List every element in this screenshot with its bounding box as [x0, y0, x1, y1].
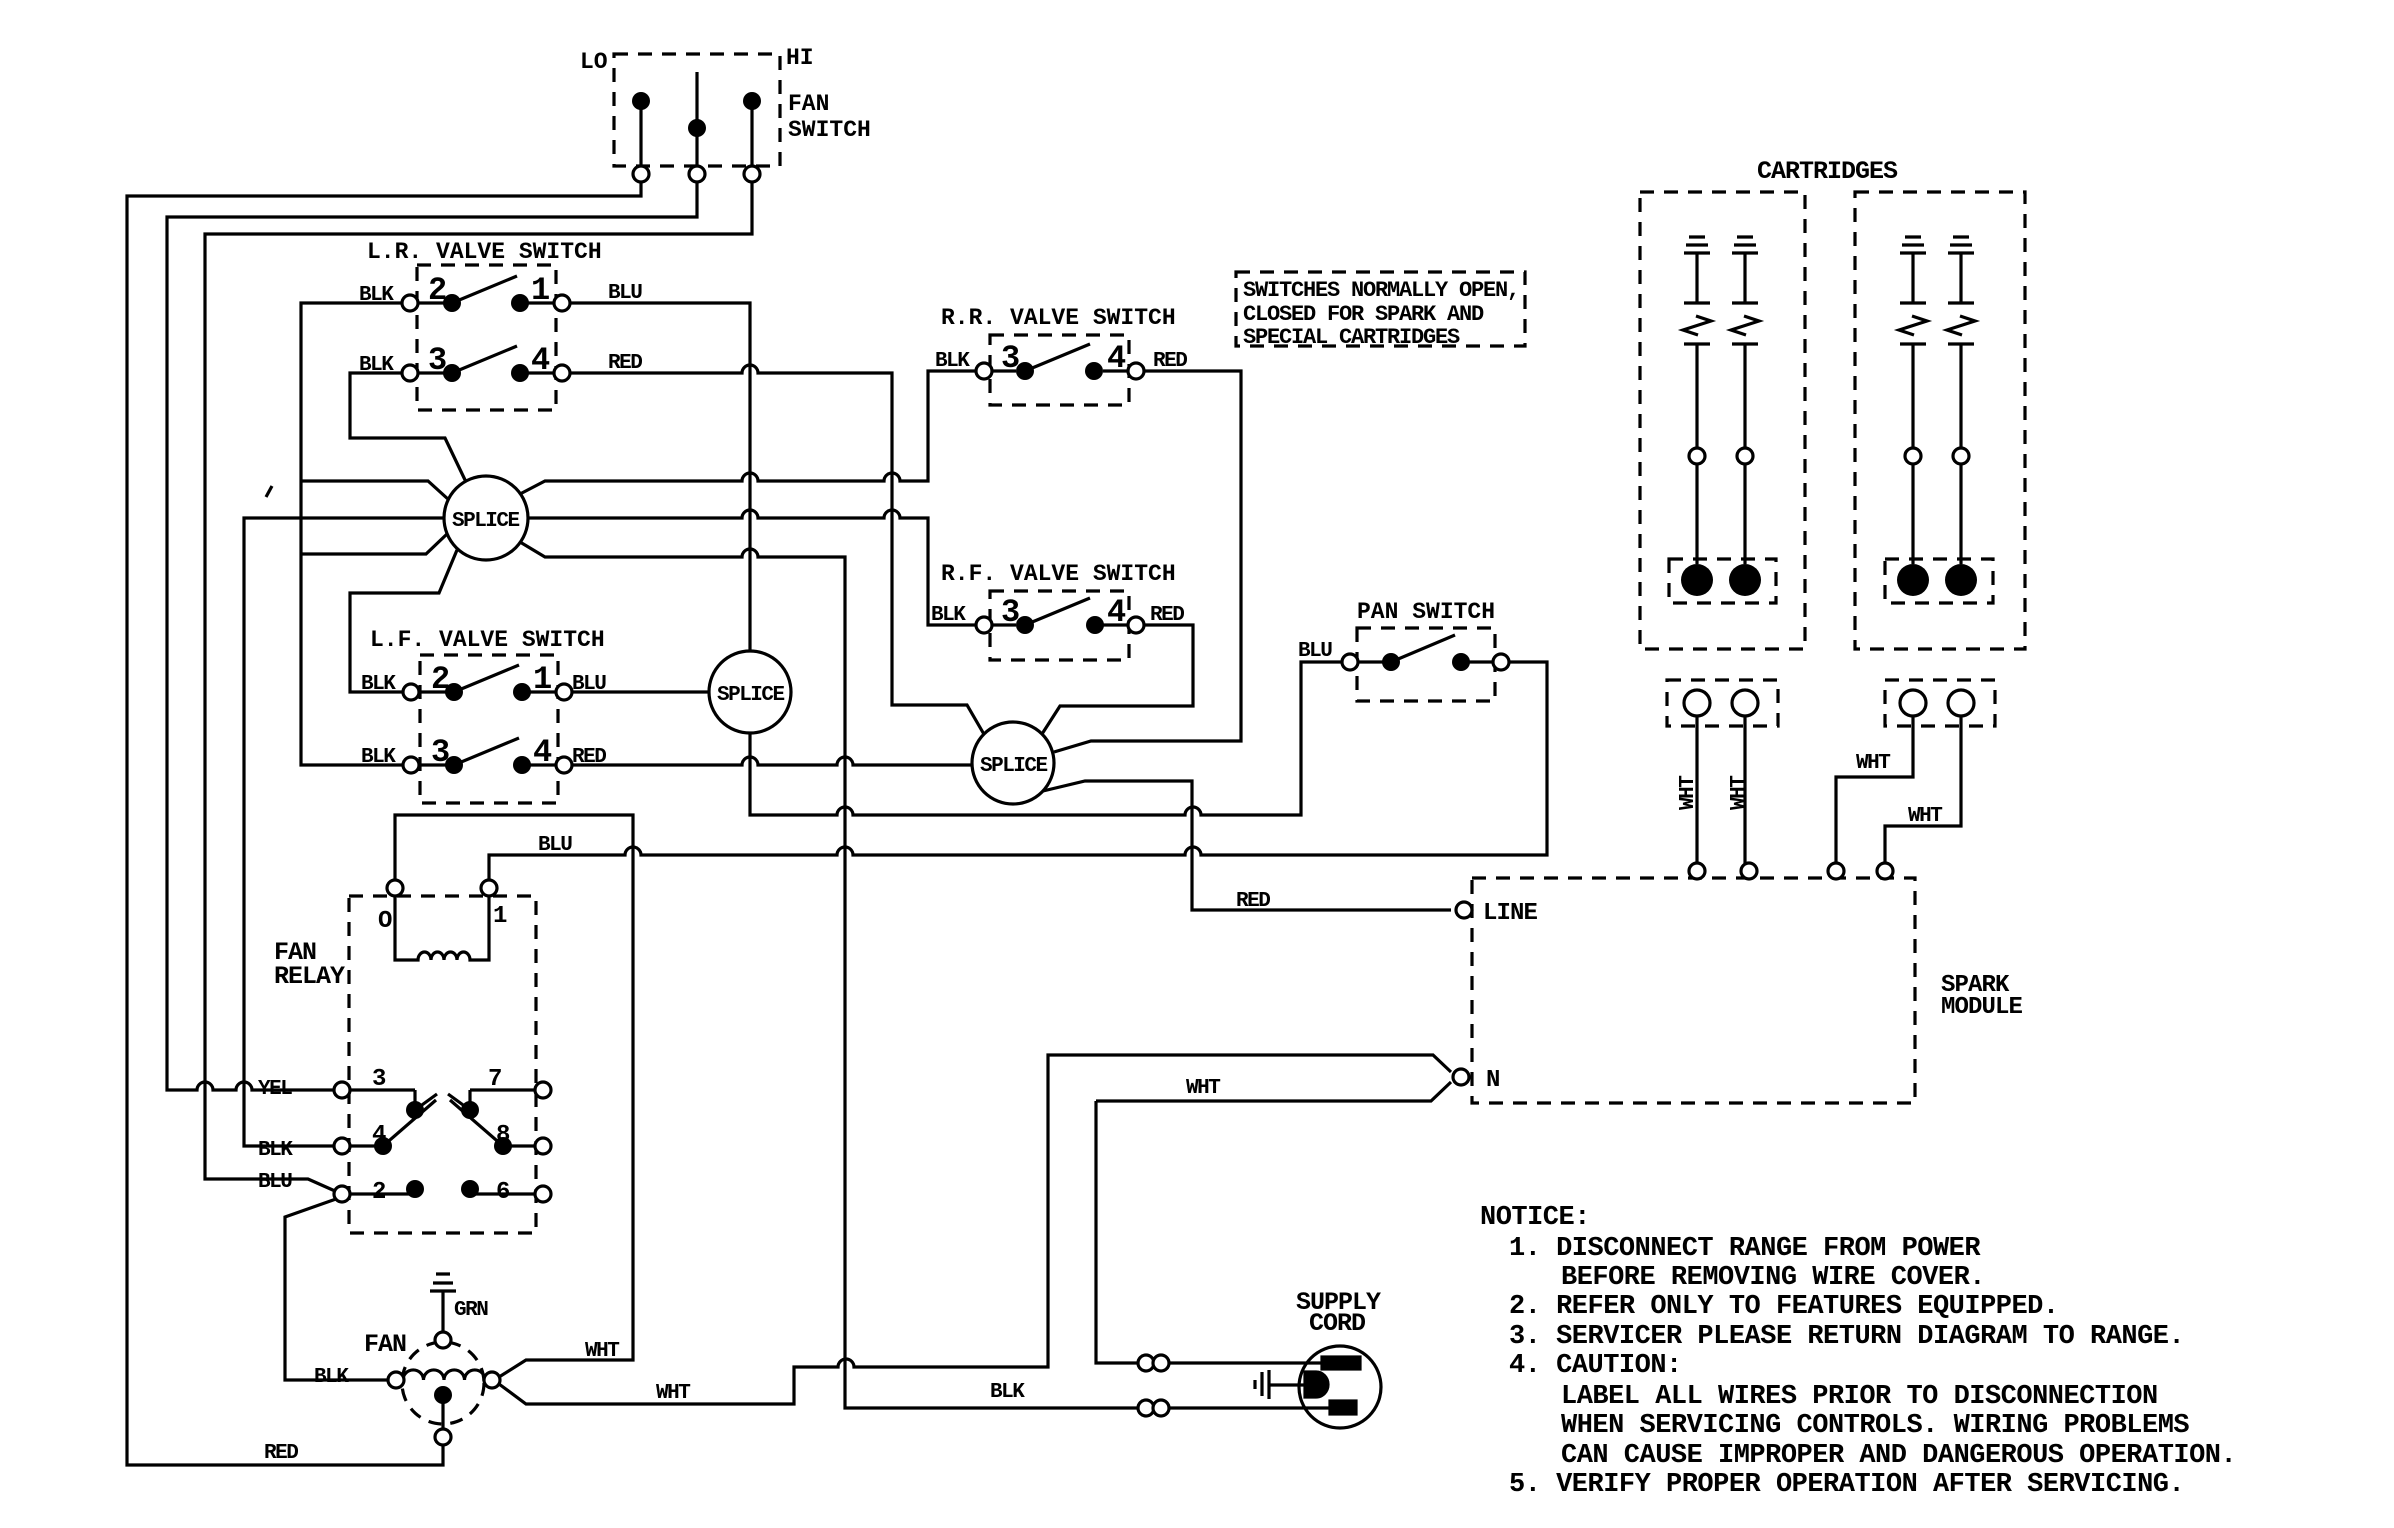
fan motor enclosure — [402, 1342, 484, 1424]
spark module enclosure — [1472, 878, 1915, 1103]
wire L.F. valve 4 RED to splice3 left — [571, 757, 973, 765]
label BLU (pan switch) — [1298, 640, 1332, 663]
svg-text:WHEN SERVICING CONTROLS. WIRIN: WHEN SERVICING CONTROLS. WIRING PROBLEMS — [1561, 1411, 2189, 1441]
L.R. pin 1 — [531, 272, 550, 309]
spark module terminal 2 — [1741, 863, 1757, 879]
svg-text:4: 4 — [531, 342, 550, 379]
svg-text:5. VERIFY PROPER OPERATION AFT: 5. VERIFY PROPER OPERATION AFTER SERVICI… — [1509, 1470, 2184, 1500]
L.F. valve switch contact 3-4 — [403, 738, 572, 774]
wire splice1 to R.R. valve 3 BLK (H1) — [520, 371, 977, 494]
svg-text:4: 4 — [1107, 340, 1126, 377]
svg-text:RED: RED — [264, 1442, 298, 1465]
fan relay contact 3 — [334, 1082, 437, 1119]
svg-text:3. SERVICER PLEASE RETURN DIAG: 3. SERVICER PLEASE RETURN DIAGRAM TO RAN… — [1509, 1322, 2184, 1352]
svg-text:CLOSED FOR SPARK AND: CLOSED FOR SPARK AND — [1243, 302, 1484, 327]
splice junction SPLICE1 — [444, 476, 528, 560]
label FAN SWITCH — [788, 91, 871, 143]
L.F. pin 1 — [533, 661, 552, 698]
wire right cartridge lead 2 to spark module — [1885, 716, 1961, 864]
svg-text:BLK: BLK — [361, 746, 396, 769]
fan GRN terminal — [435, 1332, 451, 1348]
wire right cartridge lead 1 to spark module — [1836, 716, 1913, 864]
svg-text:PAN SWITCH: PAN SWITCH — [1357, 599, 1495, 625]
svg-text:SWITCH: SWITCH — [788, 117, 871, 143]
wire splice1 to fan relay 4 (BLK) — [244, 518, 444, 1146]
fan relay coil terminal 1 — [481, 880, 497, 896]
label WHT (cart lead 3) — [1856, 752, 1890, 775]
fan relay contact 2 — [334, 1180, 424, 1202]
svg-text:GRN: GRN — [454, 1299, 488, 1322]
svg-text:MODULE: MODULE — [1941, 994, 2023, 1021]
label RED (L.F.4) — [572, 746, 606, 769]
svg-text:FAN: FAN — [364, 1330, 406, 1359]
svg-text:WHT: WHT — [1908, 805, 1942, 828]
label GRN — [454, 1299, 488, 1322]
fan label — [364, 1330, 406, 1359]
svg-text:BLK: BLK — [361, 673, 396, 696]
label HI — [786, 45, 814, 71]
wire L.R. valve 2 BLK / L.F. valve 3 BLK vertical — [301, 303, 404, 765]
svg-text:HI: HI — [786, 45, 814, 71]
cartridge enclosure right — [1855, 192, 2025, 649]
svg-text:CORD: CORD — [1309, 1309, 1366, 1338]
svg-text:CAN CAUSE IMPROPER AND DANGERO: CAN CAUSE IMPROPER AND DANGEROUS OPERATI… — [1561, 1441, 2236, 1471]
pan switch contact — [1342, 635, 1509, 671]
wire splice1 to supply cord BLK (H3) — [520, 542, 1139, 1408]
label BLU (relay 2) — [258, 1171, 292, 1194]
fan switch HI terminal — [743, 92, 761, 182]
spark module terminal 4 — [1877, 863, 1893, 879]
fan BLK terminal — [388, 1372, 404, 1388]
svg-text:BLU: BLU — [1298, 640, 1332, 663]
svg-text:WHT: WHT — [1856, 752, 1890, 775]
ground symbol (supply cord) — [1255, 1370, 1305, 1399]
svg-text:NOTICE:: NOTICE: — [1480, 1203, 1590, 1233]
label BLK (L.F.2) — [361, 673, 396, 696]
wire branch to splice1 upper-left — [301, 481, 449, 500]
cartridge enclosure left — [1640, 192, 1805, 649]
R.R. valve switch enclosure — [990, 335, 1129, 405]
svg-text:WHT: WHT — [1186, 1077, 1220, 1100]
ground symbol (fan GRN) — [430, 1274, 456, 1333]
label WHT (cart lead 2) — [1728, 776, 1751, 810]
wire N prong lead through connector to plug — [1168, 1361, 1322, 1364]
R.R. valve switch title — [941, 305, 1176, 331]
fan relay pin 8 — [496, 1122, 510, 1149]
stray tick mark — [266, 486, 272, 497]
svg-text:RELAY: RELAY — [274, 962, 345, 991]
wire splice3 lower-right to spark module LINE (RED) — [1043, 781, 1451, 910]
notice text block — [1480, 1203, 2236, 1500]
label BLK (R.R.3) — [935, 350, 970, 373]
igniter electrode 1 (left cartridge) — [1681, 237, 1713, 596]
L.F. pin 2 — [431, 661, 450, 698]
wire fan relay 2 to fan motor BLK terminal — [285, 1199, 389, 1380]
supply cord ground prong — [1305, 1372, 1328, 1397]
svg-text:SWITCHES NORMALLY OPEN,: SWITCHES NORMALLY OPEN, — [1243, 278, 1519, 303]
fan relay coil terminal 0 — [387, 880, 403, 896]
spark module label N — [1486, 1067, 1500, 1094]
L.R. valve switch enclosure — [417, 265, 556, 410]
wire fan-switch LO to fan RED terminal (left outer loop) — [127, 175, 641, 1465]
label BLK (L.R.3) — [359, 354, 394, 377]
fan RED terminal — [435, 1429, 451, 1445]
wire left cartridge lead 2 to spark module — [1743, 716, 1746, 864]
label BLK (relay 4) — [258, 1139, 293, 1162]
label WHT (N lower lead) — [1186, 1077, 1220, 1100]
svg-text:LABEL ALL WIRES PRIOR TO DISCO: LABEL ALL WIRES PRIOR TO DISCONNECTION — [1561, 1382, 2158, 1412]
fan relay pin 4 — [372, 1122, 386, 1149]
svg-text:RED: RED — [1236, 890, 1270, 913]
svg-text:2. REFER ONLY TO FEATURES EQUI: 2. REFER ONLY TO FEATURES EQUIPPED. — [1509, 1292, 2059, 1322]
svg-text:N: N — [1486, 1067, 1500, 1094]
fan relay contact 8 arm — [450, 1100, 551, 1155]
wire fan motor WHT to spark module N — [499, 1055, 1451, 1404]
spark module title — [1941, 972, 2023, 1021]
L.R. valve switch contact 2-1 — [402, 276, 570, 312]
svg-text:SPLICE: SPLICE — [980, 755, 1048, 778]
spark module label LINE — [1483, 900, 1538, 927]
svg-text:BLK: BLK — [359, 354, 394, 377]
wire L.F. valve 2 BLK to splice1 bottom — [350, 550, 457, 692]
svg-text:BLK: BLK — [990, 1381, 1025, 1404]
svg-text:LO: LO — [580, 49, 608, 75]
connector pair (BLK lead) — [1138, 1400, 1169, 1416]
fan relay pin 6 — [496, 1179, 510, 1206]
L.R. pin 3 — [428, 342, 447, 379]
L.R. valve switch title — [367, 239, 602, 265]
label BLU (L.R.1) — [608, 282, 642, 305]
fan WHT terminal — [484, 1372, 500, 1388]
wire BLK connector to supply cord lower prong — [1168, 1406, 1331, 1409]
R.R. pin 4 — [1107, 340, 1126, 377]
label BLK (R.F.3) — [931, 604, 966, 627]
label LO — [580, 49, 608, 75]
R.F. pin 4 — [1107, 594, 1126, 631]
svg-text:YEL: YEL — [258, 1078, 292, 1101]
wire left cartridge lead 1 to spark module — [1695, 716, 1698, 864]
wire supply cord neutral prong to spark module N — [1096, 1101, 1139, 1363]
svg-text:2: 2 — [372, 1179, 386, 1206]
svg-text:1: 1 — [533, 661, 552, 698]
svg-text:WHT: WHT — [1677, 776, 1700, 810]
svg-text:BLU: BLU — [608, 282, 642, 305]
fan relay contact 4 arm — [334, 1100, 436, 1155]
label WHT (fan lower) — [656, 1382, 690, 1405]
wire N lower lead to spark module N terminal — [1096, 1082, 1451, 1101]
svg-text:BLU: BLU — [258, 1171, 292, 1194]
label BLU (heavy line) — [538, 834, 572, 857]
svg-text:WHT: WHT — [585, 1340, 619, 1363]
svg-text:4: 4 — [1107, 594, 1126, 631]
wire fan relay 0 to fan motor WHT terminal — [395, 815, 633, 1377]
svg-text:2: 2 — [431, 661, 450, 698]
fan relay pin 2 — [372, 1179, 386, 1206]
fan relay pin 3 — [372, 1066, 386, 1093]
svg-text:RED: RED — [1153, 350, 1187, 373]
spark module N terminal — [1453, 1069, 1469, 1085]
supply cord hot prong — [1322, 1357, 1360, 1369]
svg-text:R.R. VALVE SWITCH: R.R. VALVE SWITCH — [941, 305, 1176, 331]
svg-text:SPLICE: SPLICE — [717, 684, 785, 707]
svg-text:BLU: BLU — [572, 673, 606, 696]
fan relay pin 7 — [488, 1066, 502, 1093]
svg-text:3: 3 — [431, 734, 450, 771]
svg-text:BLK: BLK — [258, 1139, 293, 1162]
cartridges title — [1757, 157, 1898, 186]
wire splice2 bottom to pan switch BLU — [750, 662, 1343, 815]
label WHT (cart lead 4) — [1908, 805, 1942, 828]
L.F. valve switch contact 2-1 — [403, 665, 572, 701]
igniter electrode 2 (left cartridge) — [1729, 237, 1761, 596]
wire splice1 to R.F. valve 3 BLK (H2) — [528, 510, 976, 625]
svg-text:FAN: FAN — [788, 91, 829, 117]
svg-text:BLK: BLK — [359, 284, 394, 307]
svg-text:1: 1 — [493, 903, 507, 930]
note box switches normally open — [1236, 272, 1525, 350]
wire L.R. valve 1 BLU to splice2 top — [569, 303, 750, 651]
fan switch LO terminal — [632, 92, 650, 182]
svg-text:7: 7 — [488, 1066, 502, 1093]
wire fan-switch HI down left side to fan relay 2 (BLU) — [205, 175, 752, 1191]
pan switch title — [1357, 599, 1495, 625]
svg-text:BLU: BLU — [538, 834, 572, 857]
R.R. valve switch contact 3-4 — [976, 344, 1144, 380]
fan relay title — [274, 938, 345, 991]
svg-text:WHT: WHT — [656, 1382, 690, 1405]
splice junction SPLICE3 — [972, 722, 1054, 804]
svg-text:3: 3 — [1001, 340, 1020, 377]
supply cord title — [1296, 1288, 1381, 1338]
svg-text:BEFORE REMOVING WIRE COVER.: BEFORE REMOVING WIRE COVER. — [1561, 1263, 1985, 1293]
wire fan relay 1 to pan switch right (heavy BLU) — [489, 662, 1547, 881]
wire L.R. valve 4 RED to splice3 upper-left — [569, 365, 985, 736]
L.F. valve switch enclosure — [420, 655, 558, 803]
label RED (fan) — [264, 1442, 298, 1465]
svg-text:3: 3 — [428, 342, 447, 379]
label BLK (fan) — [314, 1366, 349, 1389]
svg-text:4: 4 — [533, 734, 552, 771]
label YEL (relay 3) — [258, 1078, 292, 1101]
svg-text:R.F. VALVE SWITCH: R.F. VALVE SWITCH — [941, 561, 1176, 587]
spark module LINE terminal — [1456, 902, 1472, 918]
svg-text:BLK: BLK — [931, 604, 966, 627]
svg-text:L.F. VALVE SWITCH: L.F. VALVE SWITCH — [370, 627, 605, 653]
R.R. pin 3 — [1001, 340, 1020, 377]
L.R. pin 4 — [531, 342, 550, 379]
svg-text:8: 8 — [496, 1122, 510, 1149]
R.F. valve switch title — [941, 561, 1176, 587]
wire branch to splice1 lower-left — [301, 534, 447, 554]
svg-text:6: 6 — [496, 1179, 510, 1206]
svg-text:RED: RED — [608, 352, 642, 375]
wire R.R. valve 4 RED to splice3 right — [1054, 371, 1241, 752]
fan relay pin 1 — [493, 903, 507, 930]
svg-text:4: 4 — [372, 1122, 386, 1149]
svg-text:LINE: LINE — [1483, 900, 1538, 927]
R.F. pin 3 — [1001, 594, 1020, 631]
pan switch enclosure — [1357, 628, 1495, 701]
label BLK (supply) — [990, 1381, 1025, 1404]
connector pair (N lead) — [1138, 1355, 1169, 1371]
svg-text:BLK: BLK — [314, 1366, 349, 1389]
svg-text:BLK: BLK — [935, 350, 970, 373]
label BLU (L.F.1) — [572, 673, 606, 696]
label RED (R.F.4) — [1150, 604, 1184, 627]
svg-text:SPLICE: SPLICE — [452, 510, 520, 533]
supply cord neutral prong — [1330, 1401, 1356, 1414]
fan relay enclosure — [349, 896, 536, 1233]
fan relay coil — [395, 895, 489, 960]
fan relay contact 7 — [448, 1082, 551, 1119]
svg-text:2: 2 — [428, 272, 447, 309]
fan center tap — [434, 1386, 452, 1430]
wire L.F. valve 1 BLU to splice2 — [571, 690, 709, 693]
fan motor winding — [403, 1370, 485, 1380]
svg-text:CARTRIDGES: CARTRIDGES — [1757, 157, 1898, 186]
L.R. valve switch contact 3-4 — [402, 346, 570, 382]
fan relay pin 0 — [378, 908, 392, 935]
burner box left — [1669, 559, 1776, 603]
connector block left — [1667, 680, 1778, 726]
R.F. valve switch contact 3-4 — [976, 598, 1144, 634]
svg-text:3: 3 — [1001, 594, 1020, 631]
fan switch enclosure — [614, 54, 780, 166]
supply cord plug body — [1299, 1346, 1381, 1428]
splice junction SPLICE2 — [709, 651, 791, 733]
wire fan-switch MID down left side to fan relay 3 (YEL) — [167, 175, 697, 1090]
spark module terminal 1 — [1689, 863, 1705, 879]
svg-text:1. DISCONNECT RANGE FROM POWER: 1. DISCONNECT RANGE FROM POWER — [1509, 1234, 1981, 1264]
label RED (L.R.4) — [608, 352, 642, 375]
L.F. pin 4 — [533, 734, 552, 771]
L.R. pin 2 — [428, 272, 447, 309]
svg-text:RED: RED — [1150, 604, 1184, 627]
L.F. valve switch title — [370, 627, 605, 653]
svg-text:1: 1 — [531, 272, 550, 309]
igniter electrode 4 (right cartridge) — [1945, 237, 1977, 596]
label RED (R.R.4) — [1153, 350, 1187, 373]
svg-text:4. CAUTION:: 4. CAUTION: — [1509, 1351, 1682, 1381]
svg-text:3: 3 — [372, 1066, 386, 1093]
spark module terminal 3 — [1828, 863, 1844, 879]
L.F. pin 3 — [431, 734, 450, 771]
connector block right — [1885, 680, 1995, 726]
label RED (spark line) — [1236, 890, 1270, 913]
fan switch MID terminal — [688, 72, 706, 182]
label WHT (cart lead 1) — [1677, 776, 1700, 810]
label WHT (fan upper) — [585, 1340, 619, 1363]
burner box right — [1885, 559, 1993, 603]
igniter electrode 3 (right cartridge) — [1897, 237, 1929, 596]
label BLK (L.F.3) — [361, 746, 396, 769]
svg-text:RED: RED — [572, 746, 606, 769]
R.F. valve switch enclosure — [990, 591, 1129, 660]
svg-text:L.R. VALVE SWITCH: L.R. VALVE SWITCH — [367, 239, 602, 265]
svg-text:O: O — [378, 908, 392, 935]
label BLK (L.R.2) — [359, 284, 394, 307]
svg-text:WHT: WHT — [1728, 776, 1751, 810]
wire R.F. valve 4 RED to splice3 upper-right — [1042, 625, 1193, 734]
wire L.R. valve 3 BLK to splice1 top — [350, 373, 466, 482]
svg-text:SPECIAL CARTRIDGES: SPECIAL CARTRIDGES — [1243, 325, 1460, 350]
fan relay contact 6 — [461, 1180, 551, 1202]
